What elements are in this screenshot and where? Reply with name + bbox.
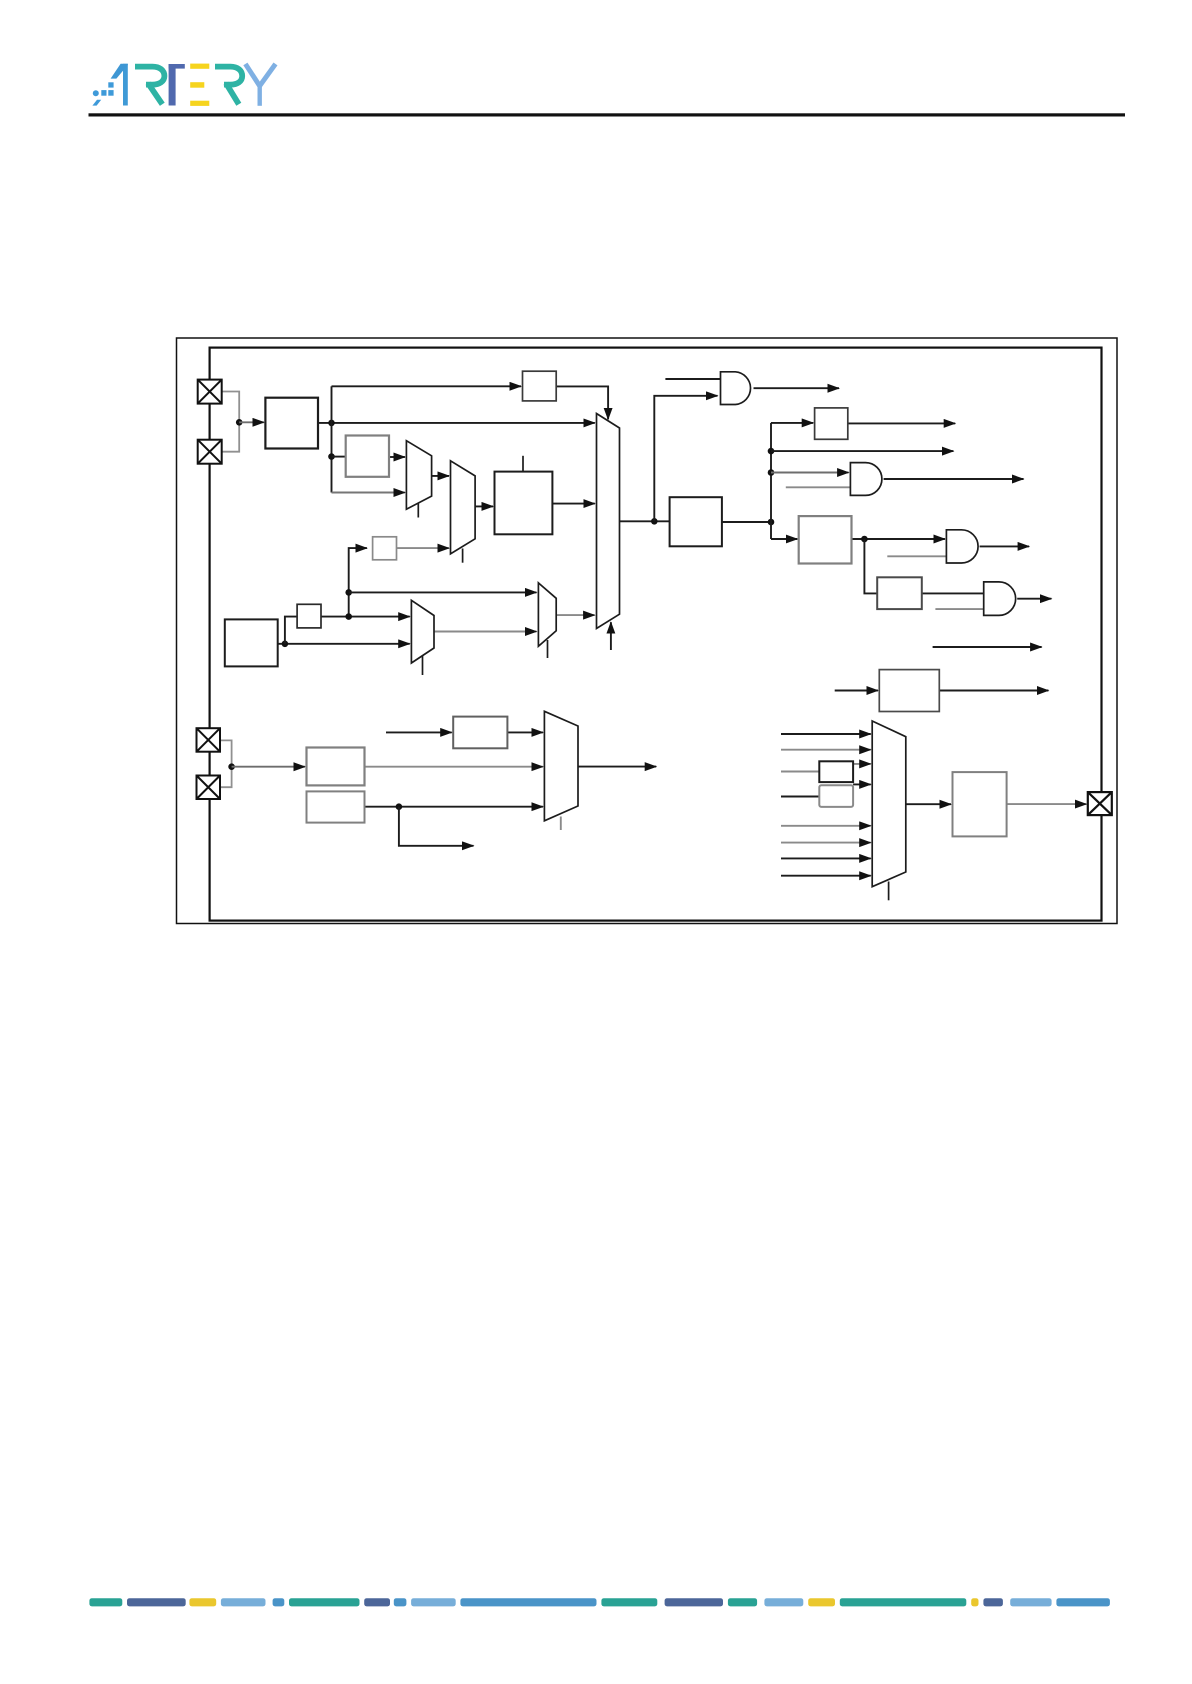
box S2 — [373, 537, 397, 560]
wire: box C output to mux M3 — [278, 643, 410, 645]
logo slash — [92, 100, 101, 106]
wire: mux M6 input 7 — [781, 857, 871, 859]
wire: G1 top input — [665, 378, 720, 380]
FOOTER — [89, 1598, 1110, 1606]
AND gate G4 — [984, 582, 1016, 616]
logo dot round r2c1 — [93, 90, 99, 96]
wire: ETR box output to mux M5 — [507, 731, 543, 733]
wire: mux M6 input 2 — [781, 749, 871, 751]
box C — [225, 619, 278, 666]
box S1 — [523, 371, 557, 401]
wire: F1 output to mux M6 — [853, 763, 871, 765]
wire: out box output — [722, 521, 771, 523]
wire: up arrow into tall mux bottom — [610, 622, 612, 650]
wire: into AND gate G2 — [771, 472, 849, 474]
box A — [265, 398, 318, 449]
box E8 — [307, 791, 365, 822]
filter box F2 — [819, 785, 853, 807]
wire: branch up to AND gate G1 — [654, 396, 717, 522]
wire: counter top stub — [522, 456, 524, 472]
mux M2 tail — [462, 549, 464, 563]
wire: mux M1 output to mux M2 — [432, 475, 449, 477]
node: junction into box B — [328, 453, 335, 460]
logo dot square r1c3 — [108, 82, 113, 87]
wire: mux M4 output to tall mux — [556, 614, 594, 616]
logo letter R2 — [215, 67, 242, 85]
mux M1 tail — [417, 503, 419, 518]
AND gate G2 — [850, 463, 882, 496]
wire: G3 lower input — [887, 555, 946, 557]
pin CH3 — [197, 728, 221, 752]
wire: S1 output down into tall mux top — [556, 386, 608, 419]
node: bracket junction bottom — [228, 763, 235, 770]
wire: standalone arrow — [933, 646, 1042, 648]
wire: box D output — [939, 690, 1048, 692]
node: junction on box A output — [328, 420, 335, 427]
wire: right bus vertical — [770, 423, 772, 539]
filter box F1 — [819, 761, 853, 782]
wire: box O5 output to output pin — [1007, 803, 1087, 805]
box R2 — [799, 516, 852, 563]
header rule — [89, 113, 1126, 116]
mux M1 — [406, 441, 431, 510]
node: junction on tall mux output — [651, 518, 658, 525]
box S5 — [297, 604, 321, 628]
wire: mux M6 input 5 — [781, 825, 871, 827]
mux M4 tail — [547, 640, 549, 658]
node: junction after box R2 — [861, 536, 868, 543]
wire: into box D — [835, 690, 878, 692]
wire: into box R2 — [771, 538, 797, 540]
box B — [346, 436, 389, 477]
logo letter E mid bar — [190, 82, 204, 88]
node: bus junction 1 — [768, 448, 775, 455]
wire: S4 output to AND gate G4 — [922, 592, 984, 594]
wire: into box A — [239, 421, 264, 423]
wire: G2 output — [884, 478, 1024, 480]
wire: mux M5 long output arrow — [578, 766, 656, 768]
tall mux — [597, 414, 620, 629]
node: junction on S5 output — [345, 613, 352, 620]
box S4 — [877, 577, 922, 609]
mux M4 — [538, 583, 556, 646]
wire: vertical feed up to box S2 — [349, 548, 367, 617]
wire: into box B — [332, 456, 346, 458]
mux M6 — [872, 721, 906, 887]
wire: into box E7 — [232, 766, 305, 768]
wire: F2 output to mux M6 — [853, 783, 871, 785]
wire: into ETR box — [386, 731, 452, 733]
wire: into box S3 — [771, 422, 813, 424]
logo letter Y — [245, 64, 259, 86]
logo dot square r2c3 — [108, 90, 113, 96]
wire: G4 lower input — [935, 608, 983, 610]
logo dot square r2c2 — [101, 90, 106, 96]
outer frame — [177, 338, 1118, 924]
mux M3 — [411, 600, 434, 663]
wire: mux M6 input 1 — [781, 733, 871, 735]
node: junction out box output — [768, 519, 775, 526]
wire: mux M6 input 8 — [781, 875, 871, 877]
mux M5 tail — [560, 817, 562, 831]
AND gate G3 — [946, 530, 978, 563]
logo letter 1/A flag — [111, 64, 128, 79]
wire: mux M2 output to counter — [475, 505, 493, 507]
node: bus junction 2 — [768, 469, 775, 476]
logo letter T — [169, 63, 185, 65]
mux M5 — [544, 711, 578, 821]
mux M6 tail — [888, 882, 890, 901]
counter box — [495, 472, 553, 535]
wire: box R2 output to AND gate G3 — [852, 538, 945, 540]
node: junction after box C — [282, 641, 289, 648]
node: junction long line — [345, 589, 352, 596]
wire: G3 output — [980, 545, 1030, 547]
wire: into filter box F1 — [781, 771, 819, 773]
box E7 — [307, 748, 365, 786]
pin CH2 — [198, 440, 222, 464]
wire: S3 output long arrow — [848, 422, 955, 424]
mux M3 tail — [422, 656, 424, 675]
wire: tall mux output to out box — [620, 520, 670, 522]
AND gate G1 — [721, 372, 751, 405]
wire: box A output to tall mux — [318, 422, 595, 424]
wire: G1 output — [754, 387, 840, 389]
box S3 — [815, 408, 848, 439]
wire: into filter box F2 — [781, 796, 819, 798]
logo letter E bottom bar — [190, 101, 209, 106]
wire: long line to mux M4 first input — [349, 591, 537, 593]
pin OUT — [1088, 792, 1112, 815]
ETR box — [453, 717, 507, 749]
wire: G4 output — [1017, 598, 1051, 600]
node: junction after box E8 — [396, 803, 403, 810]
wire: mux M3 output to mux M4 — [434, 631, 537, 633]
wire: G2 lower input — [786, 486, 851, 488]
wire: box E8 output to mux M5 — [365, 806, 543, 808]
node: bracket junction — [236, 419, 243, 426]
wire: long arrow mid — [771, 450, 953, 452]
wire: lower branch to mux M1 second input — [332, 492, 405, 494]
wire: mux M6 input 6 — [781, 842, 871, 844]
wire: box E7 output to mux M5 — [365, 766, 543, 768]
pin CH4 — [197, 776, 221, 800]
box O5 — [953, 772, 1007, 836]
wire: S5 output to mux M3 first input — [321, 616, 410, 618]
wire: counter output to tall mux — [552, 503, 594, 505]
logo letter E top bar — [190, 64, 209, 69]
wire: pin bracket top pair — [222, 392, 239, 452]
wire: mux M6 output into box O5 — [906, 803, 951, 805]
box D — [879, 670, 939, 712]
wire: pin bracket bottom pair — [219, 740, 231, 787]
wire: top branch to small box S1 — [332, 385, 522, 387]
pin CH1 — [198, 380, 222, 404]
wire: S2 output to mux M2 lower input — [397, 547, 450, 549]
wire: branch down short arrow — [399, 807, 474, 846]
mux M2 — [451, 461, 476, 554]
out box — [670, 497, 722, 546]
wire: branch up into box S5 — [285, 617, 297, 644]
logo letter 1/A bar — [123, 64, 128, 106]
logo letter R1 — [135, 67, 164, 85]
wire: vertical branch from box A output — [331, 386, 333, 492]
wire: branch down into box S4 — [864, 539, 877, 593]
wire: box B output to mux M1 — [389, 456, 405, 458]
LOGO — [92, 64, 275, 106]
inner frame — [210, 348, 1102, 921]
